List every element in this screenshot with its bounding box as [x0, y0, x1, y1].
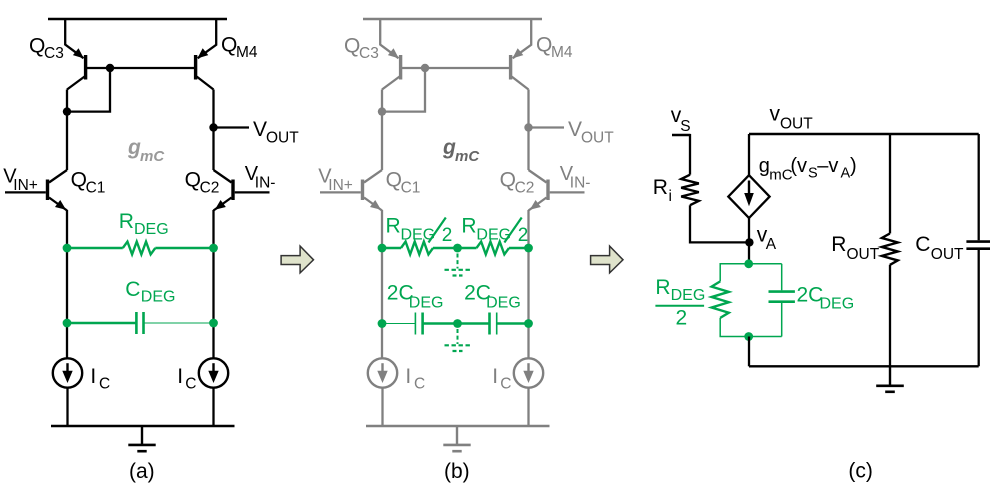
- svg-text:R: R: [386, 214, 401, 237]
- label I_C right [a]: [177, 365, 196, 393]
- wire: C_OUT bottom lead: [978, 250, 980, 366]
- transistor Q_M4 [b]: [511, 19, 532, 90]
- svg-text:C: C: [414, 375, 425, 392]
- svg-text:S: S: [808, 166, 818, 182]
- resistor R_OUT: [882, 234, 898, 265]
- svg-text:2: 2: [442, 225, 453, 246]
- svg-text:Q: Q: [344, 34, 360, 57]
- wire: right collector branch [a]: [212, 90, 214, 171]
- svg-text:R: R: [655, 276, 670, 299]
- svg-text:): ): [850, 155, 857, 177]
- label Q_C3 [b]: [344, 34, 379, 62]
- current source I_C right [a]: [199, 358, 228, 387]
- wire: V_OUT stub [a]: [214, 126, 250, 128]
- wire: left emitter branch [b]: [381, 210, 383, 358]
- svg-text:I: I: [90, 365, 96, 388]
- wire: v_A to RC tank: [748, 242, 750, 263]
- svg-text:C1: C1: [401, 180, 421, 197]
- svg-text:I: I: [492, 365, 498, 388]
- svg-text:C2: C2: [200, 180, 220, 197]
- junction dot: Q_C3 collector [a]: [63, 107, 71, 115]
- node dot R_DEG right: [209, 244, 218, 253]
- ground (c): [876, 366, 904, 392]
- wire: right emitter branch [a]: [212, 210, 214, 358]
- wire: base bus Q_C3-Q_M4 [b]: [402, 67, 510, 69]
- label g_mC [a]: [127, 136, 165, 165]
- ground [b]: [443, 426, 470, 451]
- svg-text:Q: Q: [71, 169, 87, 192]
- node dot tank bottom: [744, 332, 753, 341]
- node dot R_DEG left: [63, 244, 72, 253]
- label R_DEG/2 left: [386, 214, 453, 246]
- node V_OUT dot [a]: [209, 123, 217, 131]
- RC tank frame (green): [720, 264, 782, 337]
- svg-text:DEG: DEG: [486, 295, 521, 312]
- svg-text:R: R: [119, 210, 134, 233]
- resistor R_DEG/2 right: [458, 242, 529, 255]
- wire: v_S to R_i: [689, 134, 691, 175]
- wire: R_i to node v_A: [690, 205, 749, 242]
- capacitor C_DEG: [67, 312, 214, 334]
- svg-text:g: g: [759, 155, 770, 177]
- dependent source g_mC(vS-vA) diamond: [728, 175, 769, 218]
- current source I_C left [b]: [368, 358, 397, 387]
- wire: R_OUT bottom lead: [889, 265, 891, 366]
- label I_C left [a]: [90, 365, 110, 393]
- wire: right source to rail [b]: [527, 388, 529, 426]
- svg-text:A: A: [766, 236, 777, 253]
- junction dot: base bus [a]: [106, 64, 114, 72]
- svg-text:(c): (c): [848, 460, 873, 483]
- resistor R_DEG/2 left: [382, 242, 458, 255]
- ground [a]: [128, 426, 155, 451]
- label v_OUT: [770, 103, 814, 133]
- virtual ground (dashed) R row: [445, 254, 471, 276]
- capacitor 2C_DEG (tank): [769, 264, 795, 337]
- label V_IN- [b]: [560, 163, 591, 192]
- svg-text:C: C: [915, 233, 930, 256]
- transistor Q_C3 [b]: [380, 19, 400, 90]
- wire: rail to dependent source: [748, 134, 750, 175]
- svg-text:Q: Q: [386, 169, 402, 192]
- wire: source to node v_A: [748, 218, 750, 242]
- wire: base bus Q_C3-Q_M4 [a]: [87, 67, 195, 69]
- label (b) [b]: [444, 460, 470, 483]
- label g_mC [b]: [442, 136, 480, 165]
- node v_A dot: [745, 238, 753, 246]
- label C_DEG: [125, 278, 175, 306]
- label I_C left [b]: [405, 365, 425, 393]
- transistor Q_C2 [b]: [529, 170, 549, 211]
- block arrow (a) to (b): [281, 246, 313, 273]
- wire: R_OUT top lead: [889, 134, 891, 234]
- node dot C row left: [378, 319, 387, 328]
- wire: diode connection Q_C3 [b]: [382, 68, 425, 112]
- svg-text:C: C: [500, 375, 511, 392]
- label R_DEG: [119, 210, 169, 238]
- node V_OUT dot [b]: [524, 123, 532, 131]
- svg-text:C2: C2: [515, 180, 535, 197]
- capacitor C_OUT: [966, 242, 990, 249]
- svg-text:g: g: [127, 136, 141, 159]
- svg-text:Q: Q: [29, 34, 45, 57]
- svg-text:M4: M4: [551, 44, 573, 61]
- label V_IN+ [b]: [318, 166, 353, 195]
- svg-text:DEG: DEG: [820, 296, 855, 313]
- label v_S: [671, 104, 691, 135]
- svg-text:2: 2: [518, 225, 529, 246]
- virtual ground (dashed) C row: [445, 329, 471, 351]
- label 2C_DEG left: [387, 282, 444, 312]
- svg-text:mC: mC: [455, 148, 480, 165]
- svg-text:V: V: [568, 118, 582, 141]
- svg-text:C: C: [125, 278, 140, 301]
- svg-text:mC: mC: [140, 148, 165, 165]
- svg-text:Q: Q: [221, 34, 237, 57]
- svg-text:(v: (v: [790, 155, 807, 177]
- wire: left emitter branch [a]: [66, 210, 68, 358]
- node dot C row middle: [453, 319, 462, 328]
- svg-text:v: v: [770, 103, 781, 126]
- label R_DEG/2 right: [461, 214, 528, 246]
- resistor R_DEG: [67, 242, 214, 255]
- junction dot: Q_C3 collector [b]: [378, 107, 386, 115]
- label Q_C1 [b]: [386, 169, 421, 197]
- svg-text:M4: M4: [236, 44, 258, 61]
- label g_mC(vS-vA): [759, 155, 857, 184]
- wire: v_OUT top rail: [749, 133, 979, 135]
- wire: left source to rail [b]: [381, 388, 383, 426]
- svg-text:DEG: DEG: [134, 221, 169, 238]
- wire: bottom rail [a]: [51, 425, 235, 427]
- label V_OUT [a]: [253, 118, 299, 147]
- resistor R_DEG/2 (tank): [712, 281, 729, 318]
- svg-text:R: R: [831, 233, 846, 256]
- label 2C_DEG right: [464, 282, 521, 312]
- svg-text:S: S: [680, 118, 690, 135]
- wire: tank to bottom rail: [748, 337, 750, 367]
- wire: V_IN- base lead [a]: [235, 191, 270, 193]
- transistor Q_C1 [b]: [363, 170, 383, 211]
- label Q_C2 [b]: [500, 169, 535, 197]
- svg-text:R: R: [653, 176, 668, 199]
- svg-text:R: R: [461, 214, 476, 237]
- svg-text:(b): (b): [444, 460, 470, 483]
- node dot tank top: [744, 259, 753, 268]
- svg-text:C: C: [99, 375, 110, 392]
- label (c): [848, 460, 873, 483]
- svg-text:C1: C1: [86, 180, 106, 197]
- node dot R row middle: [453, 244, 462, 253]
- svg-text:A: A: [841, 166, 851, 182]
- svg-text:2: 2: [676, 307, 688, 330]
- svg-text:I: I: [177, 365, 183, 388]
- transistor Q_C2 [a]: [214, 170, 234, 211]
- transistor Q_C1 [a]: [48, 170, 68, 211]
- svg-text:Q: Q: [536, 34, 552, 57]
- wire: top supply rail [a]: [48, 18, 227, 20]
- label R_DEG/2 fraction: [655, 276, 705, 330]
- wire: C_OUT top lead: [978, 134, 980, 240]
- wire: left source to rail [a]: [66, 388, 68, 426]
- wire: V_OUT stub [b]: [529, 126, 565, 128]
- svg-text:DEG: DEG: [671, 287, 706, 304]
- svg-text:IN-: IN-: [570, 175, 591, 192]
- wire: V_IN+ base lead [b]: [320, 191, 361, 193]
- wire: top supply rail [b]: [363, 18, 542, 20]
- svg-text:IN-: IN-: [255, 175, 276, 192]
- wire: right source to rail [a]: [212, 388, 214, 426]
- label Q_C3 [a]: [29, 34, 64, 62]
- svg-text:OUT: OUT: [581, 130, 614, 147]
- label Q_M4 [b]: [536, 34, 573, 62]
- wire: left collector branch [b]: [381, 90, 383, 171]
- wire: V_IN- base lead [b]: [550, 191, 585, 193]
- svg-text:DEG: DEG: [409, 295, 444, 312]
- label Q_C1 [a]: [71, 169, 106, 197]
- label V_IN- [a]: [245, 163, 276, 192]
- label R_i: [653, 176, 672, 205]
- svg-text:OUT: OUT: [780, 116, 813, 133]
- svg-text:mC: mC: [769, 167, 792, 184]
- wire: bottom rail [b]: [366, 425, 550, 427]
- svg-text:IN+: IN+: [328, 177, 353, 194]
- wire: left collector branch [a]: [66, 90, 68, 171]
- label V_IN+ [a]: [3, 166, 38, 195]
- svg-text:(a): (a): [129, 460, 155, 483]
- junction dot: base bus [b]: [421, 64, 429, 72]
- current source I_C right [b]: [514, 358, 543, 387]
- node dot C_DEG left: [63, 319, 72, 328]
- current source I_C left [a]: [53, 358, 82, 387]
- svg-text:I: I: [405, 365, 411, 388]
- node dot R row left: [378, 244, 387, 253]
- wire: diode connection Q_C3 [a]: [67, 68, 110, 112]
- svg-text:C3: C3: [44, 45, 64, 62]
- svg-text:V: V: [253, 118, 267, 141]
- svg-text:–v: –v: [817, 155, 838, 177]
- svg-text:DEG: DEG: [141, 289, 176, 306]
- label R_OUT: [831, 233, 880, 263]
- transistor Q_M4 [a]: [196, 19, 217, 90]
- node dot R row right: [524, 244, 533, 253]
- svg-text:g: g: [442, 136, 456, 159]
- svg-text:IN+: IN+: [13, 177, 38, 194]
- label (a) [a]: [129, 460, 155, 483]
- label Q_M4 [a]: [221, 34, 258, 62]
- wire: V_IN+ base lead [a]: [5, 191, 46, 193]
- label Q_C2 [a]: [185, 169, 220, 197]
- svg-text:Q: Q: [500, 169, 516, 192]
- label I_C right [b]: [492, 365, 511, 393]
- svg-text:OUT: OUT: [931, 246, 964, 263]
- wire: right emitter branch [b]: [527, 210, 529, 358]
- capacitor 2C_DEG right: [458, 313, 529, 335]
- capacitor 2C_DEG left: [382, 313, 458, 335]
- label C_OUT: [915, 233, 964, 263]
- terminal v_S: [672, 134, 691, 136]
- label v_A: [757, 224, 777, 254]
- block arrow (b) to (c): [591, 246, 623, 273]
- node dot C row right: [524, 319, 533, 328]
- svg-text:Q: Q: [185, 169, 201, 192]
- svg-text:C3: C3: [359, 45, 379, 62]
- wire: right collector branch [b]: [527, 90, 529, 171]
- label V_OUT [b]: [568, 118, 614, 147]
- resistor R_i: [681, 175, 699, 206]
- node dot C_DEG right: [209, 319, 218, 328]
- label 2C_DEG (tank): [797, 284, 855, 313]
- svg-text:OUT: OUT: [847, 246, 880, 263]
- wire: bottom rail (c): [749, 365, 979, 367]
- svg-text:C: C: [185, 375, 196, 392]
- svg-text:i: i: [669, 188, 672, 205]
- svg-text:OUT: OUT: [266, 130, 299, 147]
- transistor Q_C3 [a]: [65, 19, 85, 90]
